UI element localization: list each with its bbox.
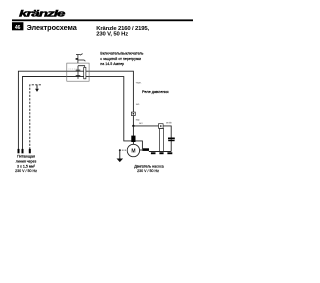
overload element — [84, 67, 86, 78]
wire L1 (phase): left drop + top run + drop to motor — [18, 71, 133, 149]
svg-text:46: 46 — [15, 25, 21, 31]
wire L2 (neutral): left drop + run + drop + to motor right — [23, 77, 143, 150]
svg-text:M: M — [131, 148, 135, 154]
svg-text:Питающая: Питающая — [17, 154, 35, 158]
terminal cap L2 — [22, 149, 24, 153]
svg-text:Реле давления: Реле давления — [142, 90, 169, 94]
svg-text:Двигатель насоса: Двигатель насоса — [134, 164, 164, 168]
Kraenzle logo wordmark — [19, 9, 65, 19]
bottom terminal 3 — [167, 152, 172, 154]
bottom terminal 1 — [151, 152, 156, 154]
svg-text:230 V / 50 Hz: 230 V / 50 Hz — [15, 169, 37, 173]
actuator pivot dot — [76, 58, 78, 60]
terminal cap L1 — [18, 149, 20, 153]
svg-text:Электросхема: Электросхема — [27, 23, 78, 32]
switch box outline — [67, 63, 89, 81]
wire PE dashed — [30, 85, 42, 150]
motor M1 — [127, 144, 139, 156]
header rule — [12, 19, 193, 21]
svg-text:зел.: зел. — [136, 104, 141, 106]
motor PE dashed lead — [119, 149, 127, 151]
svg-text:линия через: линия через — [16, 159, 37, 163]
supply line label — [15, 154, 37, 173]
relay coil rectangle — [160, 129, 164, 152]
svg-text:зел/ж: зел/ж — [166, 123, 172, 125]
switch actuator — [76, 54, 85, 64]
svg-text:3 x 1,5 мм²: 3 x 1,5 мм² — [17, 164, 36, 168]
motor ground arrow — [117, 150, 124, 162]
svg-text:на 14.5 Ампер: на 14.5 Ампер — [100, 62, 124, 66]
page number badge 46 — [12, 22, 23, 31]
svg-text:kränzle: kränzle — [19, 9, 65, 19]
switch label text — [100, 52, 143, 66]
motor feed lower segment — [132, 126, 134, 145]
mechanical link dashed — [69, 68, 78, 70]
bottom terminal 2 — [159, 152, 163, 154]
svg-text:черн.: черн. — [136, 83, 142, 85]
motor label — [134, 164, 164, 173]
pressure switch contact box — [159, 124, 164, 129]
motor top terminal bar — [131, 136, 135, 142]
bottom wire — [149, 151, 171, 153]
connector square on motor feed — [131, 112, 135, 115]
svg-text:230 V / 50 Hz: 230 V / 50 Hz — [137, 169, 159, 173]
model heading — [96, 26, 149, 38]
ground arrow on PE — [35, 85, 39, 92]
svg-text:с защитой от перегрузки: с защитой от перегрузки — [100, 57, 141, 61]
motor right lead — [140, 149, 143, 151]
node junction at motor feed — [132, 125, 134, 127]
terminal cap PE — [29, 149, 31, 153]
svg-text:зел: зел — [139, 123, 143, 125]
switch bridge contact — [76, 66, 81, 79]
svg-text:кор.: кор. — [136, 120, 141, 122]
branch wire to capacitor network — [133, 126, 171, 152]
link bridge to overload element — [78, 66, 85, 68]
motor right terminal bar — [142, 148, 149, 151]
svg-text:Включатель/выключатель: Включатель/выключатель — [100, 52, 143, 56]
svg-text:230 V, 50 Hz: 230 V, 50 Hz — [96, 32, 128, 38]
capacitor plates — [168, 138, 175, 142]
